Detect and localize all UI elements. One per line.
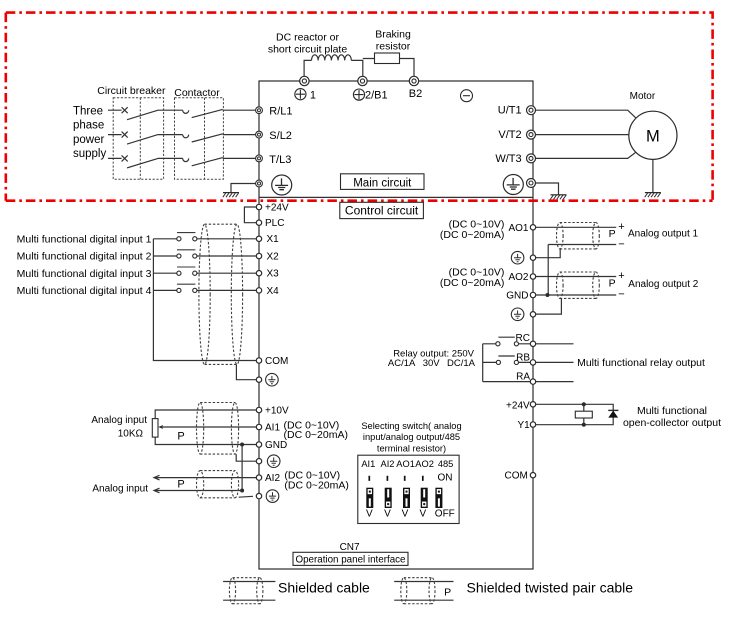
svg-text:supply: supply [73,148,106,160]
svg-text:10KΩ: 10KΩ [118,429,144,440]
svg-text:2/B1: 2/B1 [365,90,388,102]
svg-text:resistor: resistor [376,41,411,53]
svg-text:1: 1 [310,90,316,102]
svg-text:+: + [618,221,624,233]
svg-text:AC/1A 30V DC/1A: AC/1A 30V DC/1A [388,358,476,369]
svg-text:Braking: Braking [375,29,411,41]
svg-text:U/T1: U/T1 [498,105,522,117]
svg-text:Analog output 1: Analog output 1 [628,228,698,239]
svg-text:W/T3: W/T3 [495,153,521,165]
svg-text:open-collector output: open-collector output [623,417,721,429]
svg-text:X1: X1 [267,234,280,245]
svg-text:(DC 0~20mA): (DC 0~20mA) [284,429,348,441]
svg-text:Multi functional digital input: Multi functional digital input 1 [17,234,152,246]
svg-text:+: + [618,270,624,282]
svg-text:Y1: Y1 [517,420,530,431]
svg-text:RB: RB [516,352,530,363]
svg-text:AI2: AI2 [265,473,280,484]
svg-text:Three: Three [73,105,103,117]
svg-text:P: P [177,431,184,443]
svg-text:Contactor: Contactor [174,87,220,99]
svg-text:+24V: +24V [506,400,530,411]
svg-text:P: P [444,587,451,599]
svg-text:Motor: Motor [630,91,656,102]
svg-text:(DC 0~20mA): (DC 0~20mA) [440,229,504,241]
svg-text:Multi functional digital input: Multi functional digital input 2 [17,251,152,263]
svg-text:X2: X2 [267,251,280,262]
svg-text:V: V [366,508,373,519]
svg-text:Multi functional digital input: Multi functional digital input 4 [17,285,152,297]
svg-text:X4: X4 [267,286,280,297]
svg-text:COM: COM [505,471,528,482]
svg-text:phase: phase [73,120,104,132]
svg-text:AI1: AI1 [361,459,375,469]
svg-text:GND: GND [265,440,287,451]
svg-text:Main circuit: Main circuit [353,178,412,190]
svg-text:−: − [618,288,624,300]
svg-text:DC reactor or: DC reactor or [276,32,340,44]
svg-text:Analog input: Analog input [92,484,148,495]
svg-text:AI1: AI1 [265,422,280,433]
svg-text:V/T2: V/T2 [498,129,521,141]
svg-text:Multi functional digital input: Multi functional digital input 3 [17,268,152,280]
svg-text:(DC 0~20mA): (DC 0~20mA) [440,277,504,289]
svg-text:Circuit breaker: Circuit breaker [97,85,166,97]
svg-text:AO1: AO1 [508,223,528,234]
svg-text:AO2: AO2 [415,459,434,469]
svg-text:RC: RC [516,333,530,344]
svg-text:S/L2: S/L2 [269,130,292,142]
svg-text:COM: COM [265,356,288,367]
svg-text:−: − [618,238,624,250]
svg-text:T/L3: T/L3 [269,154,291,166]
svg-text:V: V [402,508,409,519]
svg-text:(DC 0~20mA): (DC 0~20mA) [284,479,348,491]
svg-text:Operation panel interface: Operation panel interface [295,555,406,566]
svg-text:485: 485 [438,459,454,469]
svg-text:Multi functional relay output: Multi functional relay output [577,357,705,369]
svg-text:P: P [609,228,616,240]
svg-text:AO1: AO1 [396,459,415,469]
svg-text:Control circuit: Control circuit [345,203,419,217]
svg-text:Selecting switch( analog: Selecting switch( analog [361,421,461,431]
svg-text:Analog input: Analog input [91,415,147,426]
svg-text:V: V [419,508,426,519]
svg-text:+24V: +24V [265,202,289,213]
svg-text:ON: ON [438,473,453,484]
svg-text:PLC: PLC [265,218,284,229]
svg-text:R/L1: R/L1 [269,106,292,118]
svg-text:input/analog output/485: input/analog output/485 [363,432,460,442]
svg-text:X3: X3 [267,269,280,280]
svg-text:CN7: CN7 [340,542,360,553]
svg-text:AO2: AO2 [508,272,528,283]
svg-text:B2: B2 [409,88,422,100]
svg-text:terminal resistor): terminal resistor) [377,443,446,453]
svg-text:+10V: +10V [265,405,289,416]
svg-text:Shielded cable: Shielded cable [278,579,370,595]
svg-text:GND: GND [506,290,528,301]
svg-text:Analog output 2: Analog output 2 [628,279,698,290]
svg-text:M: M [646,127,660,145]
svg-text:short circuit plate: short circuit plate [268,43,348,55]
svg-text:OFF: OFF [435,508,455,519]
svg-text:Multi functional: Multi functional [637,405,707,417]
svg-text:V: V [384,508,391,519]
svg-text:RA: RA [516,372,530,383]
svg-text:power: power [73,134,104,146]
svg-text:Shielded twisted pair cable: Shielded twisted pair cable [467,579,634,595]
svg-text:P: P [177,478,184,490]
svg-text:P: P [609,278,616,290]
svg-text:AI2: AI2 [381,459,395,469]
